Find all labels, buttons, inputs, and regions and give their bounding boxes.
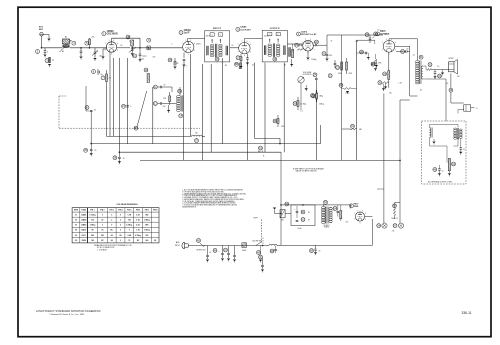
svg-text:PIN 3: PIN 3 [110,210,114,212]
tube V4 [302,39,315,54]
IF transformer T1 [205,28,230,62]
svg-text:★ VOLTAGE: ★ VOLTAGE [97,248,108,251]
ground at antenna [43,35,51,42]
capacitor C22 pair [328,60,336,78]
line bypass cap 2 [218,246,224,262]
svg-text:VOLTAGE READINGS: VOLTAGE READINGS [116,203,138,206]
vertical b+ line [409,46,411,96]
tuning gang link [137,91,147,128]
svg-text:5: 5 [47,51,48,53]
svg-text:CONTROL: CONTROL [302,74,313,76]
tube V3 label [236,26,252,32]
wire grid stub [356,40,375,54]
svg-text:OSC-MOD: OSC-MOD [107,34,118,36]
node grid 2 [89,47,91,49]
svg-text:1C: 1C [133,54,136,58]
svg-text:INPUT IF: INPUT IF [213,28,222,30]
svg-text:PIN 1: PIN 1 [90,210,94,212]
svg-text:1.5: 1.5 [301,111,303,113]
wire to speaker [426,79,446,121]
V3 cathode parts [235,54,250,69]
svg-text:1.3Meg: 1.3Meg [90,225,96,227]
resistor R18 mid [312,90,318,102]
svg-text:0: 0 [111,225,112,227]
svg-text:0: 0 [102,215,103,217]
svg-text:78: 78 [128,240,130,242]
svg-text:12BA6: 12BA6 [81,224,86,227]
svg-text:12AV6: 12AV6 [81,229,86,232]
capacitor C20 [313,40,319,46]
wire screen [395,46,410,51]
filter can box [291,205,315,226]
AC wire [191,245,205,247]
svg-text:12BA6: 12BA6 [240,26,247,29]
alt cap left [433,165,450,176]
wire drop det1 [264,63,266,153]
svg-text:88: 88 [154,240,156,242]
svg-text:336-11: 336-11 [461,311,471,315]
svg-text:150: 150 [99,56,102,58]
tube V5 output [382,39,396,55]
svg-text:.02: .02 [413,55,415,57]
dropping resistor R20 [391,203,400,220]
svg-text:PIN 2: PIN 2 [100,210,104,212]
wire b+ jog [410,84,418,96]
junction bus a [90,143,92,145]
svg-text:50C5: 50C5 [82,235,86,237]
wire V1 plate up [112,38,141,48]
svg-text:B1: B1 [225,65,227,67]
V5 cathode pot [378,81,389,85]
tube V2 IF amp [182,40,195,56]
svg-text:12BE6: 12BE6 [81,215,86,217]
alt resistor [448,158,456,176]
dial lamp 2 [392,223,404,232]
svg-text:12AV6: 12AV6 [301,30,308,33]
svg-text:250: 250 [101,235,104,237]
IF transformer T2 [262,28,287,62]
osc ref below [179,114,183,118]
tube V2 IF amp label [179,29,191,35]
svg-text:250: 250 [329,55,332,57]
wire osc left [165,87,172,92]
tube V1 converter 12BE6 label [102,31,118,36]
alt text [428,180,453,183]
wire opt sec [422,66,426,79]
bus jog drop [279,138,281,143]
svg-text:PIN 6: PIN 6 [136,210,140,212]
capacitor C1B variable [126,35,136,56]
pilot lamp [259,246,263,263]
node t1 [131,47,133,49]
capacitor on drop [122,104,132,108]
AC line wire [204,245,269,247]
bus line 4 (B-) [140,159,400,161]
svg-text:A PHOTOFACT STANDARD NOTATION: A PHOTOFACT STANDARD NOTATION SCHEMATIC [36,309,101,313]
wire drop box b [118,58,120,152]
svg-text:.05: .05 [120,45,122,47]
svg-text:2-14: 2-14 [141,59,144,61]
V4 diode plates [305,41,311,43]
variable capacitor C1A tuning [92,48,98,61]
alt coil left [430,128,433,138]
capacitor C4 osc pad [72,41,83,59]
svg-text:250: 250 [163,106,166,108]
alt wires [430,125,459,145]
voltage readings table [72,208,159,243]
node antenna junction [41,47,43,49]
svg-text:A.C.: A.C. [176,241,180,244]
svg-text:0: 0 [120,220,121,222]
svg-text:PIN 7: PIN 7 [145,210,149,212]
AVC dashed bus [59,127,200,129]
osc coil core box [144,68,150,83]
bus line 2 (B+) [91,143,320,145]
svg-text:1 Meg: 1 Meg [345,93,349,95]
resistor R13 grid [371,54,382,71]
svg-text:0: 0 [102,225,103,227]
line ground mid [310,245,321,255]
wire T2 out [287,43,302,45]
svg-text:3.3: 3.3 [437,66,439,68]
svg-text:50: 50 [463,149,465,151]
resistor R17 mid [293,97,306,110]
wire drop V3 stage [247,63,249,160]
svg-text:0: 0 [120,215,121,217]
svg-text:OUTPUT IF: OUTPUT IF [270,28,281,30]
T2 output parts [289,44,294,67]
capacitor C43 mid [371,60,378,68]
svg-text:V5: V5 [75,235,77,237]
svg-text:455 KC: 455 KC [206,36,212,38]
junction riser [280,213,282,215]
wire drop det2 [283,63,285,153]
loop antenna dashed outline [59,96,66,128]
capacitor C26 [342,32,383,36]
svg-text:.1: .1 [186,66,187,68]
junction jog [279,143,281,145]
capacitor C2 antenna coupling [36,48,49,58]
svg-text:1.5 Meg: 1.5 Meg [89,215,95,217]
svg-text:88: 88 [92,230,94,232]
wire volume dashed [253,83,301,244]
svg-text:B3: B3 [134,126,138,130]
svg-text:.05: .05 [446,83,448,85]
interlock switch [197,238,205,247]
node t2 [148,47,150,49]
wire b+ down right [377,94,384,224]
wire drop r320 [320,125,322,144]
svg-text:B5: B5 [195,132,197,134]
B+ rail [281,205,350,209]
svg-text:150: 150 [389,93,392,95]
svg-text:OUTPUT: OUTPUT [380,34,390,36]
junction ref mid [258,146,263,153]
svg-text:35W4: 35W4 [354,205,359,208]
svg-text:#47: #47 [392,230,395,232]
svg-text:47: 47 [331,41,333,43]
svg-text:40: 40 [308,220,310,222]
capacitor C25 coupling [365,33,374,43]
line bypass cap 4 [233,246,236,263]
svg-text:.05: .05 [318,251,320,253]
svg-text:0: 0 [129,230,130,232]
osc output coil L3 [192,132,203,142]
svg-text:+: + [218,251,219,253]
svg-text:120: 120 [239,68,242,70]
external antenna terminal [39,27,44,48]
osc coil ground [167,105,170,113]
bus line 1b [202,135,205,137]
resistor R3 plate [147,38,151,50]
wire V1 down [109,52,111,60]
svg-text:10Meg: 10Meg [319,104,324,106]
resistor R19 68K [342,124,363,131]
svg-text:120: 120 [91,220,94,222]
svg-text:V1: V1 [75,215,77,217]
svg-text:BL: BL [420,90,422,92]
capacitor C33 [433,70,444,80]
junction ac1 [262,245,264,247]
svg-text:150: 150 [346,222,349,224]
phono jack [449,74,478,112]
capacitor C27 [357,50,371,60]
AC riser 1 [263,152,281,245]
svg-text:455KC: 455KC [196,44,202,46]
b- riser [0,0,1,1]
wire avc v2 [86,86,90,111]
svg-text:0: 0 [111,215,112,217]
dial lamp 1 [377,223,387,228]
junction bus b [119,151,121,153]
svg-text:V2: V2 [75,220,77,222]
svg-text:SEL.: SEL. [281,219,285,221]
tube V4 label [297,30,318,36]
oscillator coil L2 [176,89,183,111]
svg-text:.05: .05 [94,110,96,112]
svg-text:4.7Meg: 4.7Meg [126,224,132,227]
svg-text:TV-PH: TV-PH [253,217,257,219]
svg-text:+: + [294,209,295,211]
resistor R2 grid leak [85,38,91,48]
alt output transformer [454,128,463,139]
screen bypass C30 [401,48,410,53]
svg-text:0: 0 [111,220,112,222]
svg-text:.05: .05 [209,252,211,254]
capacitor C11 osc [153,85,165,89]
line bypass cap 1 [206,246,212,263]
svg-text:455 KC: 455 KC [264,36,270,38]
svg-text:40-40: 40-40 [298,228,302,230]
resistor R15 voice [427,63,450,71]
wire drop T2a [254,63,256,139]
svg-text:PIN 4: PIN 4 [118,209,122,212]
svg-text:3gang: 3gang [142,56,146,58]
tube V6 rectifier [354,210,366,224]
wire drop vol [315,98,317,161]
svg-text:88: 88 [111,235,113,237]
voltage table title [116,203,138,206]
V4 cathode ground [306,51,309,60]
tube V1 converter [105,40,118,55]
svg-text:SPKR: SPKR [449,58,455,60]
bus bypass cap A [84,144,97,157]
resistor R11 [346,58,348,74]
AVC cap C8 [85,105,96,111]
filter cap A [294,206,305,218]
bus line 1 [107,135,192,137]
wire V1 plate to T1 [117,47,130,49]
tube V5 label [376,31,390,36]
svg-text:12BE6: 12BE6 [107,31,115,33]
svg-text:250: 250 [145,235,148,237]
V1 screen resistor [101,70,111,86]
svg-text:.02: .02 [372,37,374,39]
wire avc vertical [90,111,92,144]
wire t1 to V2 grid [132,47,182,49]
svg-text:.05: .05 [252,65,254,67]
svg-text:V6: V6 [75,240,77,242]
svg-text:.05: .05 [100,74,103,76]
svg-text:4.7Meg: 4.7Meg [135,234,141,237]
wire drop osc return [152,87,154,144]
rectifier label [349,204,359,209]
svg-text:.05: .05 [94,150,96,152]
svg-text:12BA6: 12BA6 [184,29,192,32]
V1 cathode resistor [101,49,106,59]
loop antenna L1 [60,36,72,52]
fuse resistor [242,243,247,248]
svg-text:.05: .05 [231,45,233,47]
speaker [449,58,458,74]
resistor R21 mid [339,83,357,94]
page number 336-11 [461,311,471,315]
vertical det line [341,35,343,160]
svg-text:FUSE: FUSE [242,250,246,252]
wire V3 plate [244,39,262,43]
wire drop T1 [202,64,204,160]
alt feed wire [442,118,444,121]
node t1c [139,47,141,49]
AC input plug [175,241,191,249]
power transformer T4 [321,200,332,228]
bus bypass cap B [113,152,125,164]
junction bus4 b2 [399,160,401,162]
wire antenna to loop [42,47,63,49]
AC line extension [277,219,372,245]
node converter grid [80,47,82,49]
svg-text:940: 940 [145,239,148,242]
resistor R10 [336,62,343,70]
svg-text:20: 20 [442,170,444,172]
bus jog short [255,137,281,139]
rect cap [333,205,339,217]
svg-text:DET-AVC-1st AF: DET-AVC-1st AF [301,33,317,36]
svg-text:V4: V4 [75,229,77,232]
svg-text:47: 47 [164,85,166,87]
resistor R1 antenna [45,57,54,67]
svg-text:.1: .1 [171,44,172,46]
svg-text:22: 22 [52,60,54,62]
svg-text:1.5 Meg: 1.5 Meg [300,104,306,106]
svg-text:.02: .02 [377,30,379,32]
svg-text:1st IF: 1st IF [184,32,191,35]
svg-text:280: 280 [91,235,94,237]
svg-text:0: 0 [120,225,121,227]
svg-text:.05: .05 [122,158,124,160]
wire drop box a [112,58,114,136]
volume control R12 [298,73,317,83]
line bypass cap 3 [224,246,231,262]
wire drop conv screen [106,86,108,136]
photofact credit [36,309,101,316]
choke cap [270,246,279,254]
tube V3 [238,41,252,57]
svg-text:ITEM: ITEM [74,210,79,212]
svg-text:.003: .003 [355,41,358,43]
volume ground [305,85,308,91]
component value labels [62,30,460,253]
resistor R4 osc [163,92,171,105]
svg-text:2nd IF-DET: 2nd IF-DET [240,29,251,31]
wire det out [319,35,327,54]
svg-text:880: 880 [145,215,148,217]
bus line 3 (heater) [119,151,281,153]
svg-text:68: 68 [177,63,179,65]
alt box wiring [430,138,459,163]
output transformer T3 [415,55,423,84]
svg-text:0: 0 [120,240,121,242]
svg-text:2.2Meg: 2.2Meg [311,59,316,61]
resistor R16 mid [273,115,279,127]
svg-text:88: 88 [111,240,113,242]
wire drop T1c [222,58,224,144]
svg-text:+: + [278,250,279,252]
svg-text:VALUE OR APPLICATION: VALUE OR APPLICATION [296,170,318,173]
table footnotes [94,244,132,252]
wire drop V1 cathode [109,60,111,136]
wire drop T1b [210,64,212,152]
svg-text:INPUT: INPUT [175,245,180,247]
svg-text:C1: C1 [129,41,131,43]
wire plate to opt [389,39,418,60]
svg-text:12BA6: 12BA6 [81,219,86,222]
filter choke L4 [269,244,277,245]
wire rect up [372,213,385,220]
selenium rectifier [273,202,291,221]
capacitor C1C pad [133,48,147,62]
svg-text:INTERLOCK: INTERLOCK [197,250,207,252]
svg-text:1 Meg: 1 Meg [319,95,324,97]
svg-text:© Howard W. Sams & Co., Inc. 1: © Howard W. Sams & Co., Inc. 1951 [49,313,85,316]
on-off switch [252,241,263,255]
wire drop box c [127,58,129,144]
capacitor C12 osc fb [153,101,165,108]
alt cap right [459,138,465,154]
V5 cathode resistor [382,71,390,91]
volume control label [302,72,313,76]
rect resistor [340,205,342,221]
junction riser rail [280,204,282,206]
wire drop r356 [356,40,358,160]
svg-text:88: 88 [120,235,122,237]
junction rail caps [302,204,304,206]
svg-text:35W4: 35W4 [81,239,85,242]
wire osc right [165,87,180,104]
wire V2 plate [188,39,206,43]
svg-text:1.4Meg: 1.4Meg [144,219,150,222]
capacitor C21 [322,52,332,62]
